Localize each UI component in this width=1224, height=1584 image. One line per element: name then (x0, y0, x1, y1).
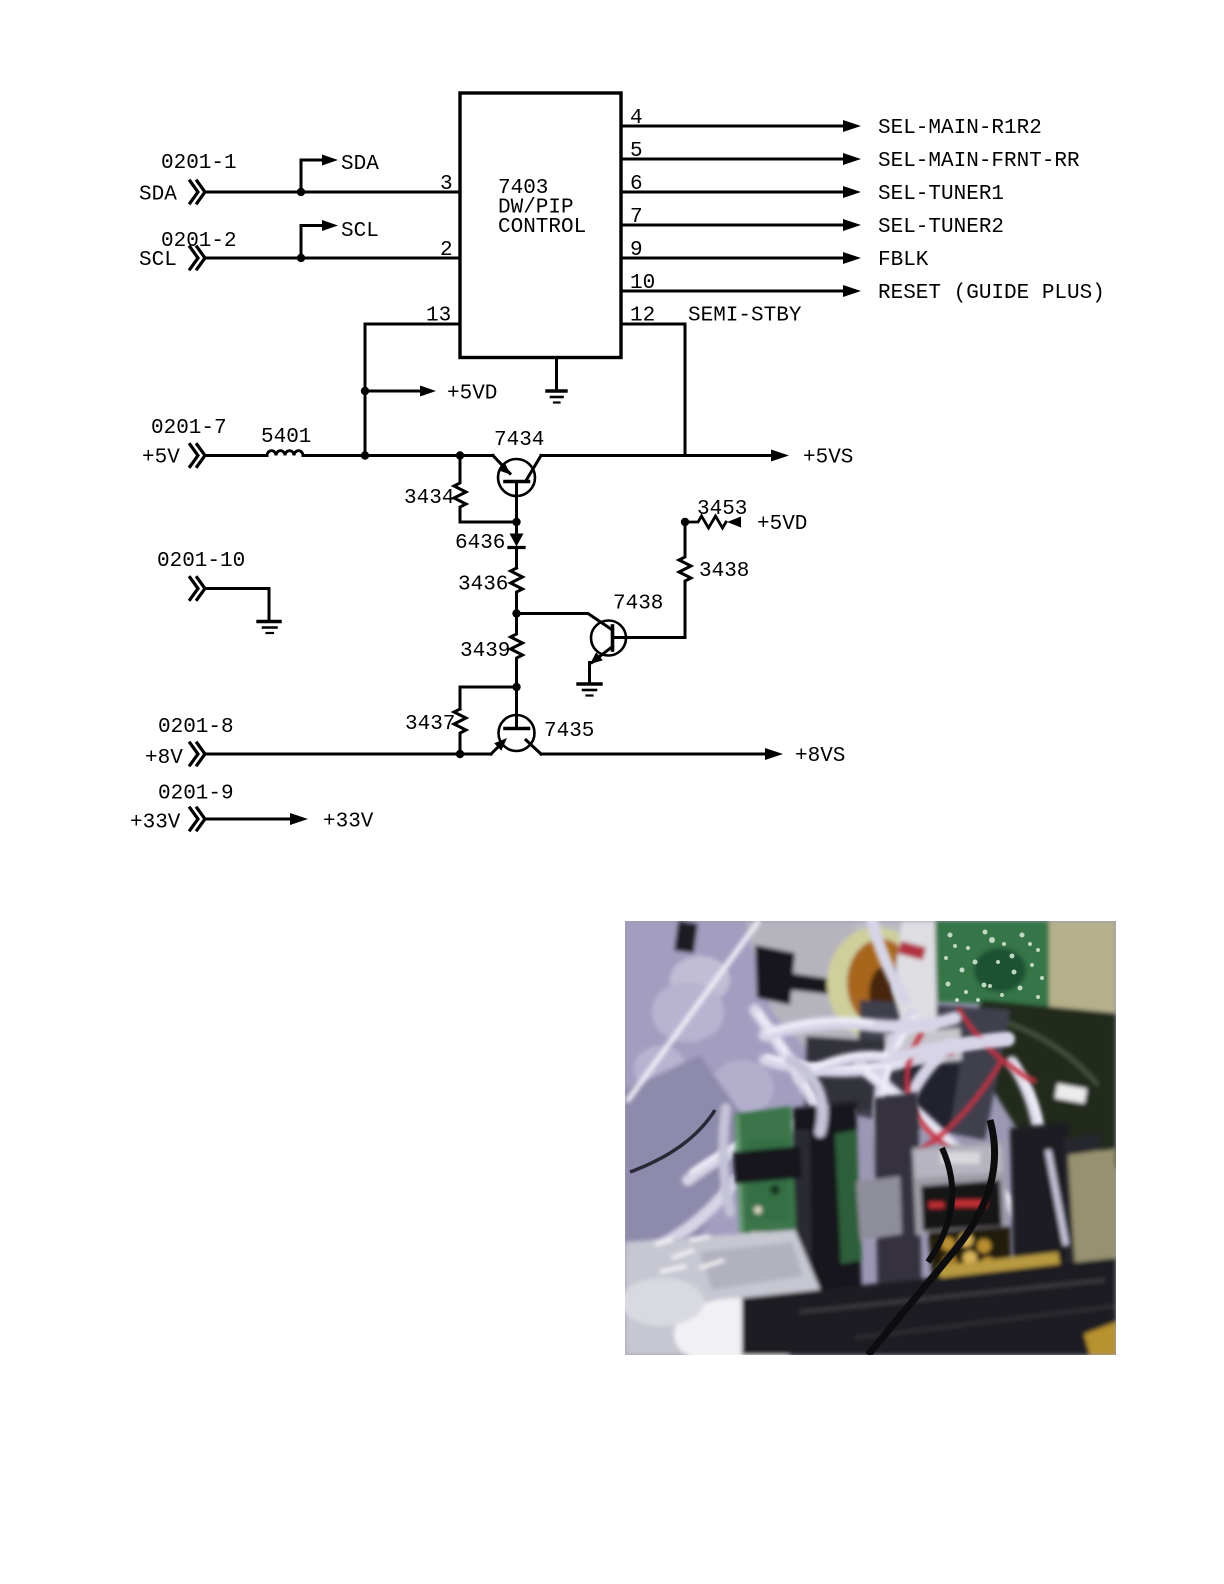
arrow +8VS (765, 748, 783, 760)
ribbon cables (640, 921, 1058, 1255)
resistor R3436 (511, 568, 523, 614)
transistor Q7438 circle (591, 621, 626, 656)
transistor Q7435 emitter (491, 742, 503, 754)
transistor Q7435 collector (526, 740, 541, 754)
svg-text:+33V: +33V (323, 811, 374, 834)
arrow SCL branch (322, 220, 338, 231)
arrow pin 7 (843, 219, 861, 231)
right dark columns (1010, 1122, 1072, 1287)
transistor Q7438 emitter arrow (590, 652, 603, 664)
svg-text:SCL: SCL (139, 249, 177, 272)
transistor Q7438 collector (613, 636, 686, 639)
svg-text:+5V: +5V (142, 447, 180, 470)
dark table (742, 1258, 1116, 1355)
wire pin 2 SCL input (206, 257, 460, 260)
arrow pin 9 (843, 252, 861, 264)
svg-text:0201-10: 0201-10 (157, 550, 245, 573)
svg-text:3453: 3453 (697, 498, 747, 521)
svg-text:SDA: SDA (341, 153, 379, 176)
wire +33V (206, 818, 291, 821)
foam bottom left (625, 1230, 838, 1355)
svg-text:6436: 6436 (455, 532, 505, 555)
ground 7438 (578, 684, 601, 696)
arrow +5VD right (727, 517, 741, 528)
wire 7435 base stem (515, 687, 518, 729)
wire 3437 branch (460, 687, 517, 709)
transistor Q7438 emitter (592, 647, 613, 663)
wire pin 3 SDA input (206, 191, 460, 194)
red wires (907, 1008, 1036, 1195)
arrow pin 10 (843, 285, 861, 297)
gold RCA connectors (928, 1226, 1012, 1297)
inductor L5401 (267, 451, 303, 456)
svg-text:3436: 3436 (458, 574, 508, 597)
wire 0201-10 to ground (206, 589, 269, 622)
ground 0201-10 (258, 622, 280, 634)
arrow pin 5 (843, 153, 861, 165)
node SDA junction (297, 188, 305, 196)
svg-text:RESET (GUIDE PLUS): RESET (GUIDE PLUS) (878, 282, 1105, 305)
khaki floor right (1068, 1148, 1116, 1290)
svg-text:10: 10 (630, 272, 655, 295)
IC U7403 box (460, 93, 621, 358)
wire +5VS rail (541, 454, 772, 457)
svg-text:3: 3 (440, 173, 453, 196)
svg-text:0201-1: 0201-1 (161, 152, 237, 175)
svg-text:+8VS: +8VS (795, 745, 845, 768)
node base 7438 junction (512, 609, 520, 617)
svg-text:+5VD: +5VD (447, 383, 497, 406)
resistor R3453 (685, 516, 726, 528)
diode D6436 (515, 522, 518, 534)
svg-text:2: 2 (440, 239, 453, 262)
transistor Q7435 emitter arrow (494, 738, 507, 751)
svg-text:+5VD: +5VD (757, 513, 807, 536)
node 3437 bottom (456, 750, 464, 758)
PCB speckles (944, 930, 1044, 1003)
svg-text:SCL: SCL (341, 220, 379, 243)
svg-text:0201-9: 0201-9 (158, 783, 234, 806)
svg-text:0201-7: 0201-7 (151, 417, 227, 440)
node rail x460 (456, 451, 464, 459)
wire +5V input (206, 454, 267, 457)
svg-text:3439: 3439 (460, 640, 510, 663)
connector 0201-9 chevron (190, 808, 205, 830)
arrow pin 6 (843, 186, 861, 198)
wire SCL branch up (301, 226, 324, 259)
node rail x365 (361, 451, 369, 459)
wire 7434 base stem (515, 482, 518, 523)
svg-text:SEMI-STBY: SEMI-STBY (688, 305, 802, 328)
svg-text:6: 6 (630, 173, 643, 196)
transistor Q7435 base bar (505, 727, 529, 731)
wire 7438 emitter down (588, 663, 591, 685)
svg-text:3438: 3438 (699, 560, 749, 583)
svg-text:5: 5 (630, 140, 643, 163)
svg-text:0201-8: 0201-8 (158, 716, 234, 739)
dark plastic bracket center (793, 1102, 862, 1312)
svg-text:SDA: SDA (139, 184, 177, 207)
resistor R3438 (679, 522, 691, 638)
svg-text:5401: 5401 (261, 426, 311, 449)
svg-text:+5VS: +5VS (803, 447, 853, 470)
svg-text:13: 13 (426, 305, 451, 328)
wire pin 4 SEL-MAIN-R1R2 (621, 125, 844, 128)
svg-text:7: 7 (630, 206, 643, 229)
svg-text:4: 4 (630, 107, 643, 130)
arrow pin 4 (843, 120, 861, 132)
wire +5VD branch (365, 390, 423, 393)
schematic text labels (130, 107, 1105, 835)
wire pin 6 SEL-TUNER1 (621, 191, 844, 194)
ground IC 7403 (547, 358, 566, 403)
node 3453 junction (681, 518, 689, 526)
svg-text:FBLK: FBLK (878, 249, 929, 272)
wire pin 10 RESET (621, 290, 844, 293)
wire 7438 base (517, 614, 613, 631)
svg-text:SEL-TUNER1: SEL-TUNER1 (878, 183, 1004, 206)
svg-text:+33V: +33V (130, 812, 181, 835)
transistor Q7434 emitter arrow (499, 464, 510, 474)
connector 0201-10 chevron (190, 578, 205, 600)
wire +8V input (206, 753, 491, 756)
wire SDA branch up (301, 160, 324, 192)
wire pin 7 SEL-TUNER2 (621, 224, 844, 227)
wire pin 9 FBLK (621, 257, 844, 260)
green vertical PCB (734, 1106, 799, 1308)
metal box (912, 1141, 1007, 1235)
wire +8VS rail (541, 753, 766, 756)
wire pin 12 SEMI-STBY (621, 324, 685, 456)
arrow +33V (290, 813, 308, 825)
node 3439 bottom junction (512, 683, 520, 691)
node SCL junction (297, 254, 305, 262)
wire pin13 down to +5V rail (364, 391, 367, 456)
svg-text:7435: 7435 (544, 720, 594, 743)
transistor Q7434 circle (498, 459, 535, 496)
svg-text:SEL-TUNER2: SEL-TUNER2 (878, 216, 1004, 239)
black cables (630, 1110, 995, 1355)
connector 0201-2 chevron (190, 247, 205, 269)
resistor R3439 (511, 614, 523, 688)
arrow +5VD branch (420, 386, 436, 397)
transistor Q7435 circle (499, 715, 535, 751)
connector 0201-8 chevron (190, 743, 205, 765)
arrow +5VS (771, 450, 789, 462)
transistor Q7438 base bar (611, 626, 615, 650)
svg-text:+8V: +8V (145, 747, 183, 770)
svg-text:CONTROL: CONTROL (498, 216, 586, 239)
transistor Q7434 emitter (493, 456, 510, 474)
svg-text:SEL-MAIN-R1R2: SEL-MAIN-R1R2 (878, 117, 1042, 140)
svg-text:7438: 7438 (613, 593, 663, 616)
connector 0201-1 chevron (190, 181, 205, 203)
connector 0201-7 chevron (190, 445, 205, 467)
arrow SDA branch (322, 155, 338, 166)
resistor R3437 (454, 709, 466, 754)
node +5VD branch junction (361, 387, 369, 395)
wire 5401 to 7434 emitter (303, 454, 493, 457)
wire pin 5 SEL-MAIN-FRNT-RR (621, 158, 844, 161)
wire pin 13 (365, 324, 460, 391)
transistor Q7434 base bar (505, 480, 529, 484)
svg-text:7434: 7434 (494, 429, 544, 452)
svg-text:12: 12 (630, 305, 655, 328)
svg-text:3434: 3434 (404, 487, 454, 510)
svg-text:9: 9 (630, 239, 643, 262)
resistor R3434 (454, 456, 517, 523)
svg-text:SEL-MAIN-FRNT-RR: SEL-MAIN-FRNT-RR (878, 150, 1080, 173)
svg-text:3437: 3437 (405, 713, 455, 736)
node 3434/base junction (512, 518, 520, 526)
transistor Q7434 collector (526, 456, 542, 482)
